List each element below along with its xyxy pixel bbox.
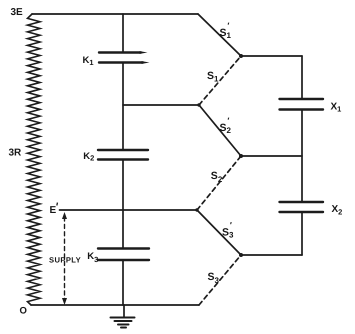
wire right rail mid segment — [301, 110, 303, 203]
switch S1' closed contact (solid diagonal) — [198, 14, 241, 56]
switch S1 open contact (dashed diagonal) — [199, 56, 241, 105]
wire tap2 (K1-K2 junction) to switch common — [123, 104, 199, 106]
supply arrowhead down — [62, 298, 67, 305]
wire center rail K3 to ground bus — [122, 260, 124, 305]
wire pole2 to right rail — [241, 155, 302, 157]
wire right rail lower segment — [301, 212, 303, 255]
wire bottom bus O to switch — [31, 304, 199, 306]
switch S2' closed contact (solid diagonal) — [199, 105, 241, 156]
svg-text:3R: 3R — [9, 148, 23, 159]
svg-text:E: E — [50, 205, 57, 216]
junction blobs — [195, 54, 243, 257]
wire E tap to switch common — [60, 209, 198, 211]
switch S2 open contact (dashed diagonal) — [197, 156, 241, 210]
capacitor K1 arrow tips — [140, 51, 148, 54]
wire right rail upper segment — [301, 56, 303, 99]
ground bars — [111, 318, 135, 328]
supply dashed arrow — [64, 217, 66, 300]
wire pole3 to right rail — [241, 254, 302, 256]
capacitor X1 — [280, 99, 324, 110]
capacitor K3 — [98, 249, 149, 261]
wire center rail K1-K2 — [122, 63, 124, 151]
wire center rail top — [122, 14, 124, 53]
supply arrowhead up — [62, 212, 67, 219]
wire center rail K2-K3 — [122, 160, 124, 249]
svg-text:O: O — [20, 306, 27, 317]
ground stub — [123, 305, 125, 317]
wire top bus 3E to bend — [32, 13, 198, 15]
svg-text:SUPPLY: SUPPLY — [49, 256, 81, 265]
resistor 3R — [28, 14, 41, 305]
switch S3' closed contact (solid diagonal) — [197, 210, 241, 255]
svg-text:3E: 3E — [11, 7, 24, 18]
capacitor K1 — [99, 53, 143, 63]
capacitor X2 — [280, 202, 324, 212]
wire pole1 to right rail — [241, 55, 302, 57]
svg-text:K2: K2 — [83, 151, 94, 163]
switch S3 open contact (dashed diagonal) — [199, 255, 241, 305]
capacitor K2 — [98, 150, 148, 160]
